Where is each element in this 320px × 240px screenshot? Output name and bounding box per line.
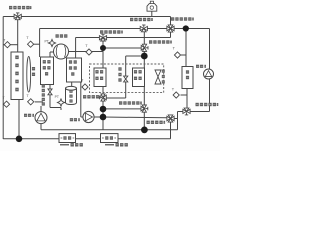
svg-text:T: T [173, 46, 176, 51]
svg-text:T: T [2, 95, 5, 100]
svg-text:PT: PT [55, 95, 59, 99]
svg-text:T: T [172, 87, 175, 92]
svg-text:T: T [3, 37, 6, 42]
svg-text:T: T [85, 43, 88, 48]
svg-text:T: T [26, 35, 29, 40]
svg-text:T: T [26, 93, 29, 98]
svg-text:PT: PT [45, 39, 49, 43]
svg-text:T: T [81, 78, 84, 83]
